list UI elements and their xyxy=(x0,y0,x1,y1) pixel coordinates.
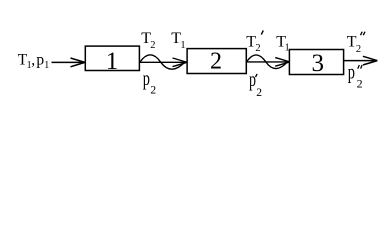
label T2' xyxy=(246,30,263,54)
svg-text:p: p xyxy=(143,68,150,90)
label p2' xyxy=(249,69,262,99)
wave arrow 1 xyxy=(140,55,187,69)
label T2'' xyxy=(347,32,365,55)
wave 1 xyxy=(140,55,186,69)
svg-text:p: p xyxy=(348,62,355,83)
label p2 xyxy=(143,68,157,96)
svg-text:1: 1 xyxy=(106,48,119,75)
svg-text:2: 2 xyxy=(150,84,156,96)
svg-text:1: 1 xyxy=(44,60,49,71)
wave 2 xyxy=(247,55,289,69)
input arrow xyxy=(52,58,85,67)
label p2'' xyxy=(348,62,363,90)
svg-text:1: 1 xyxy=(180,40,185,51)
label T1 (after cooler 2) xyxy=(276,33,289,53)
box 2 xyxy=(187,49,246,74)
output arrow xyxy=(344,56,378,65)
label T1 (after cooler 1) xyxy=(171,30,185,51)
svg-text:2: 2 xyxy=(356,44,361,55)
svg-text:2: 2 xyxy=(357,76,363,90)
box 1 xyxy=(85,46,139,70)
svg-text:2: 2 xyxy=(150,40,155,51)
svg-text:2: 2 xyxy=(256,87,262,99)
label T2 xyxy=(141,30,155,51)
svg-text:p: p xyxy=(249,69,256,91)
svg-text:,: , xyxy=(31,51,35,68)
box 3 xyxy=(289,50,343,75)
svg-text:2: 2 xyxy=(255,43,260,54)
svg-text:2: 2 xyxy=(210,49,222,75)
label T1,p1 xyxy=(18,51,50,71)
svg-text:3: 3 xyxy=(312,50,325,77)
wave arrow 2 xyxy=(247,55,290,69)
svg-text:p: p xyxy=(36,51,44,68)
